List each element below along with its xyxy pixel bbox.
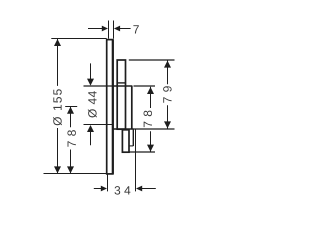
dim 34: left tail line [94, 188, 102, 190]
handle (box B) bottom edge [113, 128, 134, 130]
dim 78 right: dimension line upper segment [150, 87, 152, 108]
upper control unit bottom face line [117, 82, 125, 84]
dim O44: lower dimension line [90, 132, 92, 146]
handle (box B) top edge [113, 85, 132, 87]
wall plate (escutcheon, side view) [107, 40, 113, 174]
lower collar bottom edge [129, 145, 133, 147]
dim 34: left extension line [107, 175, 109, 192]
dim 34: right tail line [142, 188, 156, 190]
dim 7: left tail line [88, 28, 103, 30]
dim 7: right arrow [114, 26, 120, 32]
label 79, rotated [163, 86, 172, 102]
dim O44: top extension line [84, 85, 113, 87]
dim 78 right: top arrow [147, 87, 154, 94]
dim O44: upper dimension line [90, 63, 92, 79]
dim 7: left arrow [102, 26, 108, 32]
wall plate front face (thicker right edge) [112, 40, 114, 174]
dim 78 left: dimension line upper segment [70, 107, 72, 128]
dim 7: right tail line [119, 28, 130, 30]
dim O44: bottom extension line [84, 124, 113, 126]
dim 78 right: bottom extension line [129, 151, 155, 153]
label O44 (handle diameter), rotated [88, 91, 97, 117]
dim 78 left: bottom arrow [67, 166, 74, 173]
dim 7: right extension line [113, 21, 115, 39]
dim 78 right: bottom arrow [147, 145, 154, 152]
dim 79: bottom arrow [164, 121, 171, 128]
dim O44: lower arrow (pointing up) [87, 125, 94, 132]
dim 34: left arrow (pointing right) [101, 186, 107, 192]
dim 79: top arrow [164, 61, 171, 68]
dim 78 left: dimension line lower segment [70, 150, 72, 174]
dim O155: dimension line lower segment [57, 128, 59, 173]
dim O155: top arrow [54, 39, 61, 46]
label 34 (projection) [115, 186, 131, 195]
label O155 (plate diameter), rotated [53, 89, 62, 125]
label 78 left, rotated [67, 130, 76, 147]
dim O155: bottom extension line [44, 173, 107, 175]
dim O44: upper arrow (pointing down) [87, 79, 94, 86]
handle (box B) front edge [131, 86, 133, 129]
label 78 right, rotated [144, 111, 153, 128]
dim 79: top extension line [129, 59, 175, 61]
dim 78 left: top arrow [67, 107, 74, 114]
valve stem cover (box C) [122, 130, 129, 152]
dim 34: right extension line [135, 129, 137, 191]
dim O155: top extension line [51, 38, 106, 40]
dim 78 right: top extension line [134, 85, 156, 87]
upper control unit (box A) [117, 60, 125, 129]
dim 78 left: top extension line [65, 106, 77, 108]
dim 79: dimension line lower segment [167, 105, 169, 129]
dim 79: bottom extension line [134, 128, 175, 130]
dim 34: right arrow (pointing left) [136, 186, 142, 192]
dim 78 right: dimension line lower segment [150, 131, 152, 151]
label 7 (plate thickness) [133, 25, 138, 33]
dim 7: left extension line [108, 21, 110, 39]
dim O155: bottom arrow [54, 166, 61, 173]
dim 79: dimension line upper segment [167, 60, 169, 84]
dim O155: dimension line upper segment [57, 39, 59, 86]
lower collar front edge [132, 129, 134, 146]
